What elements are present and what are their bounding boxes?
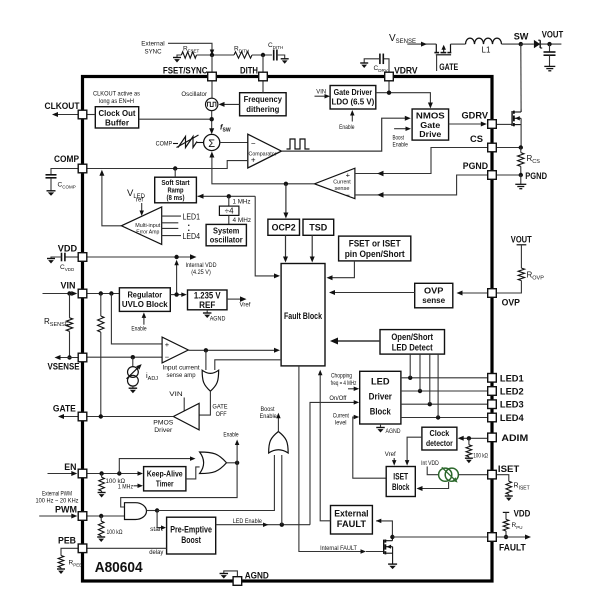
- node DITH top: [261, 53, 265, 57]
- transistor Q1 external NMOS: [511, 111, 513, 126]
- svg-text:delay: delay: [149, 549, 164, 556]
- block Open/Short LED Detect: [380, 330, 445, 355]
- block LED Driver Block: [360, 371, 401, 424]
- svg-text:dithering: dithering: [246, 104, 279, 114]
- node RSENSE bottom: [67, 355, 71, 359]
- wire LED1 input: [162, 215, 181, 217]
- wire fault node to FAULT pin: [392, 536, 487, 538]
- svg-text:Σ: Σ: [208, 138, 215, 150]
- ground at fault NMOS: [388, 563, 397, 565]
- wire PGND pin to ground: [497, 174, 521, 176]
- node GATE pullup: [99, 414, 103, 418]
- wire FSET/ISET detect to fault block: [330, 261, 354, 278]
- wire mirror to ISET block: [420, 482, 449, 489]
- block Frequency dithering: [240, 93, 287, 116]
- pin GATE: [78, 412, 87, 421]
- block Pre-Emptive Boost: [167, 517, 216, 554]
- resistor 100k ADIM: [468, 438, 470, 445]
- wire VSENSE to amp minus: [87, 356, 162, 358]
- ground at CDRV: [360, 62, 368, 64]
- wire pin to Clock Out Buffer: [87, 114, 95, 116]
- ground at RFSET: [177, 55, 181, 58]
- ground at PWM resistor: [100, 536, 102, 537]
- svg-text:Boost: Boost: [181, 535, 201, 545]
- svg-text:LED4: LED4: [183, 231, 201, 241]
- wire AND output: [147, 510, 158, 512]
- diode D1: [534, 40, 540, 48]
- wire int VDD to mirror: [427, 467, 439, 475]
- pin PGND: [488, 171, 497, 180]
- svg-text:CS: CS: [470, 134, 483, 145]
- svg-text:Block: Block: [370, 407, 392, 418]
- svg-text:sense: sense: [335, 186, 350, 192]
- wire COMP line: [87, 161, 248, 169]
- wire CS to current sense plus: [355, 148, 487, 174]
- svg-text:COMP: COMP: [54, 154, 80, 165]
- svg-text:PWM: PWM: [55, 505, 77, 516]
- wire UVLO to REF: [170, 294, 183, 296]
- block FSET or ISET pin Open/Short: [339, 236, 411, 261]
- wire current sense output to summer: [212, 157, 315, 184]
- node SW: [519, 42, 523, 46]
- wire PMOS driver to GATE pin: [87, 416, 173, 418]
- pin AGND: [233, 577, 242, 586]
- pin VDD: [78, 253, 87, 262]
- svg-text:VIN: VIN: [61, 281, 76, 292]
- svg-text:PEB: PEB: [58, 536, 76, 547]
- svg-text:LDO (6.5 V): LDO (6.5 V): [332, 97, 375, 107]
- wire LED1 line: [401, 377, 487, 379]
- wire current level to LED driver: [353, 417, 386, 478]
- block ISET Block: [386, 467, 415, 497]
- node LED3: [428, 402, 432, 406]
- svg-text:Pre-Emptive: Pre-Emptive: [170, 525, 212, 535]
- svg-text:LED4: LED4: [500, 413, 524, 424]
- svg-text:GDRV: GDRV: [462, 111, 489, 122]
- svg-text:Comparator: Comparator: [249, 151, 277, 157]
- node VDRV LDO: [387, 91, 391, 95]
- svg-text:detector: detector: [426, 438, 453, 448]
- pin FAULT: [488, 533, 497, 542]
- block Keep-Alive Timer: [144, 467, 186, 491]
- svg-text:PGND: PGND: [525, 171, 547, 182]
- wire 1MHz to fault block: [255, 196, 276, 276]
- svg-text:SW: SW: [514, 32, 529, 43]
- svg-text:Enable: Enable: [393, 142, 409, 149]
- wire LED2 line: [401, 390, 487, 392]
- svg-text:VOUT: VOUT: [511, 235, 532, 246]
- wire Frequency dithering to oscillator: [224, 103, 240, 105]
- wire comparator output to NMOS gate drive: [281, 118, 405, 151]
- pin PWM: [78, 512, 87, 521]
- block OCP2: [268, 219, 300, 235]
- svg-text:Vref: Vref: [385, 451, 396, 458]
- wire GATE external arrow: [61, 416, 78, 418]
- wire EN to keep alive: [87, 473, 140, 475]
- wire SW down to Q1 drain: [520, 44, 522, 109]
- wire LED enable: [216, 524, 310, 526]
- wire fault pin to external fault: [376, 521, 392, 537]
- svg-text:Vref: Vref: [240, 302, 251, 309]
- svg-text:External PWM: External PWM: [42, 491, 72, 497]
- block Clock detector: [422, 427, 457, 450]
- svg-text:VDD: VDD: [514, 508, 531, 519]
- ground at CVDD: [47, 258, 55, 260]
- resistor ROVP: [517, 244, 527, 246]
- svg-text:Clock: Clock: [430, 428, 450, 438]
- pin VSENSE: [78, 353, 87, 362]
- block Fault Block: [281, 264, 325, 366]
- svg-text:ref: ref: [136, 198, 143, 204]
- ground at CDITH: [281, 58, 289, 60]
- svg-text:PGND: PGND: [463, 161, 488, 172]
- wire LED2 input: [162, 222, 179, 224]
- wire vref to ISET block: [393, 458, 395, 462]
- block External FAULT: [331, 506, 373, 535]
- wire On/Off to LED driver: [310, 402, 355, 524]
- svg-text:CLKOUT: CLKOUT: [45, 101, 80, 112]
- svg-text:Current: Current: [333, 413, 349, 420]
- wire SW to diode: [521, 43, 534, 45]
- pin EN: [78, 469, 87, 478]
- wire VIN to PMOS driver: [183, 398, 185, 411]
- svg-text:−: −: [251, 139, 256, 148]
- node fault pullup: [504, 535, 508, 539]
- svg-text:GATE: GATE: [53, 404, 76, 415]
- svg-text:pin Open/Short: pin Open/Short: [345, 249, 405, 259]
- pin ADIM: [488, 433, 497, 442]
- svg-text:EN: EN: [64, 462, 76, 473]
- IC boundary A80604: [83, 77, 493, 582]
- wire AGND symbol: [224, 571, 238, 576]
- wire enable arrow: [236, 443, 238, 463]
- svg-text:100 kΩ: 100 kΩ: [107, 529, 123, 536]
- pin LED1: [488, 374, 497, 383]
- node LED4: [436, 415, 440, 419]
- wire LED4 input: [162, 235, 181, 237]
- pin CS: [488, 143, 497, 152]
- svg-text:level: level: [335, 420, 347, 427]
- svg-text:LED1: LED1: [183, 211, 201, 221]
- pin FSET/SYNC: [208, 72, 217, 81]
- svg-text:Enable: Enable: [131, 326, 147, 333]
- svg-text:4 MHz: 4 MHz: [233, 217, 252, 224]
- resistor RFSET: [181, 52, 196, 58]
- wire LDO enable: [351, 114, 353, 122]
- svg-text:LED Detect: LED Detect: [392, 343, 433, 353]
- ground at RISET: [508, 494, 510, 496]
- svg-text:Frequency: Frequency: [244, 94, 282, 104]
- svg-text:1 MHz: 1 MHz: [233, 198, 252, 205]
- svg-text:DITH: DITH: [240, 66, 258, 77]
- wire chopping arrow: [348, 388, 356, 390]
- svg-text:oscillator: oscillator: [210, 235, 244, 245]
- svg-text:Regulator: Regulator: [127, 289, 162, 299]
- svg-text:LED3: LED3: [500, 400, 524, 411]
- wire sense FET to L1: [451, 43, 466, 45]
- wire external fault to fault block: [320, 374, 330, 521]
- wire PEB pin to boost delay: [87, 547, 167, 549]
- wire LED3 input: [162, 227, 179, 229]
- pin GDRV: [488, 120, 497, 129]
- block divide by 4: [228, 196, 230, 206]
- pin LED3: [488, 400, 497, 409]
- node LED enable: [280, 523, 284, 527]
- pin CLKOUT: [78, 110, 87, 119]
- oscillator circle: [211, 81, 213, 98]
- node RSENSE top: [67, 291, 71, 295]
- wire LED detect to fault block: [332, 340, 380, 342]
- pin LED4: [488, 413, 497, 422]
- wire enable to AND gate: [121, 463, 237, 507]
- svg-text:Internal VDD: Internal VDD: [186, 262, 217, 269]
- block Soft Start Ramp: [155, 177, 197, 203]
- node LED1: [408, 376, 412, 380]
- wire TSD to fault block: [311, 235, 313, 258]
- op-amp Comparator: [248, 134, 282, 168]
- pin VDRV: [385, 72, 394, 81]
- wire OR EN output: [227, 462, 238, 464]
- svg-text:ISET: ISET: [498, 464, 520, 475]
- wire DITH node to pin: [262, 55, 264, 72]
- svg-text:Driver: Driver: [369, 392, 393, 403]
- wire div4 to system oscillator: [228, 215, 230, 224]
- wire internal fault: [299, 366, 361, 552]
- svg-text:Input current: Input current: [162, 365, 200, 372]
- wire VLED ref arrow: [141, 203, 143, 212]
- svg-text:Timer: Timer: [156, 478, 174, 488]
- block Regulator UVLO Block: [119, 288, 170, 312]
- svg-text:REF: REF: [199, 300, 216, 310]
- wire start to pre-emptive boost: [157, 511, 162, 528]
- wire GATE net stub: [436, 55, 438, 71]
- wire summer to comparator: [220, 142, 248, 144]
- block Gate Driver LDO: [330, 86, 376, 110]
- svg-text:OFF: OFF: [216, 411, 227, 418]
- pin OVP: [488, 289, 497, 298]
- wire PWM to AND gate: [87, 515, 125, 517]
- or-gate GATE OFF: [202, 370, 219, 391]
- op-amp Multi-input Error Amp: [121, 207, 161, 245]
- svg-text:External: External: [334, 509, 368, 519]
- current source IADJ: [132, 357, 134, 367]
- svg-text:long as EN=H: long as EN=H: [99, 98, 134, 105]
- wire External SYNC to FSET node: [168, 43, 212, 50]
- svg-text:+: +: [165, 340, 170, 349]
- node VIN a: [99, 291, 103, 295]
- svg-text:CLKOUT active as: CLKOUT active as: [93, 91, 140, 98]
- wire NMOS drive to GDRV: [449, 123, 483, 125]
- wire boost enable to NMOS drive: [394, 128, 407, 130]
- svg-text:External: External: [141, 41, 165, 48]
- node IADJ: [131, 355, 135, 359]
- node enable: [235, 461, 239, 465]
- or-gate boost enable: [269, 432, 289, 454]
- wire ADIM to clock detector: [461, 437, 487, 439]
- svg-text:FAULT: FAULT: [499, 543, 526, 554]
- svg-text:GATE: GATE: [439, 62, 458, 73]
- node internal VDD: [174, 255, 178, 259]
- wire Clock Out Buffer to oscillator line: [139, 118, 212, 120]
- wire EN to OR gate: [119, 459, 191, 474]
- wire L1 to SW node: [502, 43, 521, 45]
- node PWM a: [99, 514, 103, 518]
- wire CS pin to RCS: [497, 147, 521, 149]
- and-gate PWM: [125, 503, 147, 520]
- pin DITH: [259, 72, 268, 81]
- capacitor CCOMP: [51, 169, 78, 175]
- wire LED detect taps: [409, 354, 411, 378]
- or-gate EN: [200, 452, 227, 474]
- svg-text:Keep-Alive: Keep-Alive: [147, 468, 183, 478]
- pin PEB: [78, 544, 87, 553]
- ground at RPEB: [60, 568, 62, 569]
- wire UVLO enable: [143, 316, 145, 325]
- block OVP sense: [415, 283, 453, 308]
- svg-text:UVLO Block: UVLO Block: [122, 299, 168, 309]
- node FSET/SYNC top: [210, 53, 214, 57]
- svg-text:Open/Short: Open/Short: [391, 332, 433, 342]
- svg-text:FSET/SYNC: FSET/SYNC: [163, 66, 208, 77]
- svg-text:A80604: A80604: [95, 559, 143, 576]
- svg-text:Block: Block: [392, 482, 410, 492]
- pin LED2: [488, 387, 497, 396]
- wire regulator to VDD: [176, 263, 178, 295]
- wire amp output to fault block: [188, 349, 276, 351]
- node PGND: [519, 173, 523, 177]
- summer circle: [204, 134, 220, 150]
- svg-text:VDRV: VDRV: [394, 66, 418, 77]
- svg-text:Boost: Boost: [392, 135, 404, 142]
- ground at ADIM resistor: [468, 457, 470, 459]
- node ADIM: [467, 436, 471, 440]
- node 1MHz: [227, 194, 231, 198]
- svg-text:Gate Driver: Gate Driver: [334, 87, 373, 97]
- resistor RCS: [520, 148, 522, 153]
- op-amp PMOS Driver: [173, 403, 199, 430]
- node AND out: [155, 508, 159, 512]
- svg-text:Internal FAULT: Internal FAULT: [320, 546, 357, 552]
- capacitor CVDD: [65, 256, 78, 258]
- wire VIN to LDO: [315, 95, 327, 97]
- node fault drain: [390, 535, 394, 539]
- node EN b: [117, 471, 121, 475]
- svg-text:1 MHz: 1 MHz: [118, 483, 133, 490]
- op-amp Current sense: [315, 168, 355, 199]
- wire DITH pin to Frequency dithering: [262, 81, 264, 92]
- svg-text:FAULT: FAULT: [337, 519, 367, 529]
- block 1.235V REF: [188, 290, 228, 310]
- svg-text:Enable: Enable: [339, 124, 355, 131]
- wire oscillator to summer: [211, 111, 213, 129]
- wire OCP2 to fault block: [285, 235, 287, 258]
- svg-text:Enable: Enable: [223, 431, 239, 438]
- svg-text:FSET or ISET: FSET or ISET: [349, 238, 402, 248]
- wire RDITH to DITH node: [252, 54, 272, 56]
- resistor 100k EN: [101, 474, 103, 478]
- svg-text:1.235 V: 1.235 V: [194, 290, 221, 300]
- resistor RSENSE: [69, 294, 71, 318]
- svg-text:PMOS: PMOS: [153, 420, 173, 427]
- svg-text:start: start: [150, 526, 163, 533]
- svg-text:Boost: Boost: [261, 406, 275, 413]
- ground AGND at REF: [206, 310, 208, 313]
- resistor RDITH: [234, 52, 252, 58]
- wire EN external: [48, 473, 74, 475]
- svg-text:LED1: LED1: [500, 373, 524, 384]
- wire Vref out: [227, 298, 240, 300]
- svg-text:OVP: OVP: [424, 285, 444, 295]
- square wave symbol: [287, 139, 310, 149]
- ground at EN resistor: [101, 491, 103, 493]
- ground at PGND: [520, 175, 522, 184]
- wire FAULT pin out: [497, 536, 527, 538]
- pin VIN: [78, 289, 87, 298]
- wire VDRV pin down to LDO output node: [388, 81, 390, 92]
- inductor L1: [466, 38, 502, 44]
- svg-text:Soft Start: Soft Start: [161, 180, 190, 187]
- wire RFSET to node: [197, 54, 235, 56]
- svg-text:Chopping: Chopping: [331, 373, 352, 380]
- wire LED3 line: [401, 403, 487, 405]
- wire LED enable to boost OR: [281, 455, 283, 525]
- svg-text:OCP2: OCP2: [272, 223, 296, 233]
- svg-text:VOUT: VOUT: [542, 30, 564, 41]
- resistor RPEB: [61, 548, 78, 555]
- svg-text:Current: Current: [333, 179, 351, 185]
- svg-text:Buffer: Buffer: [105, 117, 130, 127]
- svg-text:ISET: ISET: [393, 471, 408, 481]
- resistor RISET: [497, 475, 509, 482]
- node soft start tap: [173, 166, 177, 170]
- wire AND to boost OR: [157, 455, 274, 511]
- current mirror ISET green: [439, 468, 452, 481]
- svg-text:Clock Out: Clock Out: [99, 108, 136, 118]
- svg-text:SYNC: SYNC: [145, 49, 162, 56]
- svg-text:On/Off: On/Off: [329, 395, 346, 402]
- svg-text:−: −: [165, 352, 170, 361]
- wire LED4 line: [401, 417, 487, 419]
- transistor sense PMOS: [435, 44, 437, 53]
- svg-text:Multi-input: Multi-input: [135, 223, 160, 229]
- svg-text:ADIM: ADIM: [501, 433, 528, 444]
- svg-text:LED: LED: [371, 377, 390, 388]
- wire 1MHz line to soft start: [198, 195, 256, 197]
- resistor RPU: [503, 511, 509, 513]
- svg-text:Error Amp: Error Amp: [136, 230, 159, 236]
- resistor VIN to GATE pullup: [100, 294, 102, 317]
- op-amp input current sense amp: [162, 337, 188, 363]
- node VOUT: [547, 42, 551, 46]
- node gate off tap: [204, 348, 208, 352]
- wire VSENSE to sense FET: [407, 43, 436, 45]
- svg-text:sense: sense: [422, 295, 445, 305]
- sawtooth ramp symbol: [173, 143, 178, 145]
- wire GDRV pin to Q1 gate: [497, 123, 512, 125]
- wire VIN to amp plus: [111, 294, 162, 344]
- svg-text:GATE: GATE: [212, 404, 227, 411]
- node VIN b: [109, 291, 113, 295]
- wire clock detector to ISET block: [407, 437, 422, 462]
- transistor fault NMOS: [383, 540, 385, 554]
- wire error amp output to COMP: [102, 175, 122, 226]
- wire OVP sense to fault block: [330, 292, 415, 294]
- wire VIN to regulator: [87, 293, 119, 295]
- wire COMP to soft start: [174, 169, 176, 178]
- wire LDO output to NMOS gate drive: [376, 93, 431, 105]
- svg-text:(8 ms): (8 ms): [167, 195, 185, 202]
- wire amp to OR gateoff: [205, 350, 207, 370]
